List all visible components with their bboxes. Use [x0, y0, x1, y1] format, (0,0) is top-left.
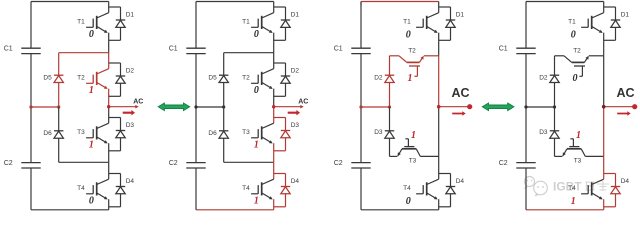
svg-text:D1: D1	[456, 12, 465, 19]
panel 4: junction dot neutral-branch	[553, 105, 556, 108]
panel 3: state of T2	[408, 73, 413, 84]
panel 1: capacitor C1	[4, 45, 41, 53]
panel 1: IGBT T1	[77, 13, 109, 33]
panel 1: wire branch above T4	[108, 162, 110, 179]
panel 4: current arrow	[617, 111, 631, 116]
svg-text:C2: C2	[499, 160, 508, 167]
panel 4: state of T4	[571, 196, 576, 207]
green transition arrow between panels 1 and 2	[158, 103, 190, 111]
panel 3: DC- rail (bottom)	[361, 209, 439, 211]
panel 2: wire branch above T3	[273, 107, 275, 124]
svg-text:AC: AC	[298, 99, 308, 106]
panel 4: DC link rail (left)	[525, 2, 527, 210]
panel 2: state of T2	[254, 85, 259, 96]
panel 3: label AC	[451, 86, 469, 100]
panel 2: wire branch above T1	[273, 2, 275, 13]
svg-text:1: 1	[89, 139, 94, 150]
svg-text:T3: T3	[574, 158, 582, 165]
svg-text:0: 0	[254, 85, 259, 96]
svg-text:0: 0	[89, 29, 94, 40]
panel 1: wire clamp top	[59, 52, 109, 54]
panel 1: wire clamp upper segment	[58, 53, 60, 107]
svg-text:1: 1	[576, 130, 581, 141]
panel 1: IGBT T4	[77, 179, 109, 199]
panel 1: DC- rail (bottom)	[31, 209, 109, 211]
svg-text:T4: T4	[568, 185, 576, 192]
panel 2: IGBT T4	[242, 179, 274, 199]
panel 4: IGBT T2 (horizontal)	[564, 48, 589, 77]
panel 3: wire neutral branch upper	[389, 56, 391, 107]
svg-text:T1: T1	[242, 18, 250, 25]
svg-text:1: 1	[408, 73, 413, 84]
panel 3: wire diode loop D4	[439, 174, 451, 207]
svg-text:1: 1	[89, 85, 94, 96]
svg-text:D2: D2	[126, 68, 135, 75]
panel 4: wire T2 left	[555, 55, 565, 57]
svg-text:D3: D3	[291, 122, 300, 129]
svg-text:0: 0	[571, 30, 576, 41]
svg-text:0: 0	[573, 73, 578, 84]
panel 2: IGBT T1	[242, 13, 274, 33]
svg-text:D4: D4	[291, 178, 300, 185]
panel 2: IGBT T2	[242, 69, 274, 89]
svg-text:D6: D6	[208, 130, 217, 137]
panel 3: AC output wire	[439, 106, 470, 108]
panel 1: junction dot neutral-clamp	[57, 105, 60, 108]
panel 4: wire T2 right	[589, 55, 604, 57]
panel 3: diode D2	[374, 75, 394, 83]
panel 3: red corner top-left	[360, 2, 362, 6]
panel 2: wire clamp top	[224, 52, 274, 54]
svg-text:T3: T3	[77, 129, 85, 136]
panel 3: state of T3	[411, 130, 416, 141]
panel 1: wire diode loop D1	[109, 7, 121, 40]
panel 1: diode D1	[116, 12, 135, 28]
panel 4: state of T1	[571, 30, 576, 41]
svg-text:C2: C2	[334, 160, 343, 167]
panel 1: wire branch above T1	[108, 2, 110, 13]
panel 4: wire branch above T1	[603, 2, 605, 13]
svg-text:T3: T3	[409, 158, 417, 165]
panel 4: junction dot neutral-rail	[524, 105, 527, 108]
svg-text:D1: D1	[291, 12, 300, 19]
panel 4: AC terminal dot	[632, 104, 637, 109]
svg-text:D1: D1	[126, 12, 135, 19]
panel 1: wire diode loop D3	[109, 118, 121, 151]
panel 2: wire diode loop D3	[274, 118, 286, 151]
panel 3: wire T3 right	[420, 155, 438, 157]
svg-text:T3: T3	[242, 129, 250, 136]
svg-text:D4: D4	[621, 178, 630, 185]
svg-text:D3: D3	[374, 129, 383, 136]
panel 4: IGBT T4	[568, 179, 604, 199]
panel 1: wire diode loop D4	[109, 174, 121, 207]
panel 3: capacitor C2	[334, 160, 371, 168]
panel 4: wire T3 right	[585, 155, 603, 157]
panel 1: wire branch below T2	[108, 89, 110, 107]
svg-text:0: 0	[254, 29, 259, 40]
panel 1: wire branch above T3	[108, 107, 110, 124]
svg-text:D2: D2	[539, 75, 548, 82]
panel 2: current arrow	[288, 110, 300, 115]
panel 2: wire clamp bottom	[224, 161, 274, 163]
panel 1: DC link rail (left)	[30, 2, 32, 210]
panel 2: DC+ rail (top)	[196, 1, 274, 3]
panel 3: diode D4	[446, 178, 465, 194]
green transition arrow between panels 3 and 4	[482, 103, 514, 111]
svg-text:0: 0	[406, 30, 411, 41]
panel 3: wire T3 left	[390, 155, 398, 157]
panel 2: clamp diode D6	[208, 130, 228, 138]
svg-text:T4: T4	[242, 185, 250, 192]
panel 1: wire branch below T4	[108, 199, 110, 210]
panel 1: IGBT T2	[77, 69, 109, 89]
panel 3: current arrow	[452, 111, 466, 116]
panel 3: wire branch below T4	[438, 199, 440, 210]
panel 3: neutral wire	[361, 106, 390, 108]
panel 1: diode D4	[116, 178, 135, 194]
svg-text:T2: T2	[242, 74, 250, 81]
panel 4: wire diode loop D1	[604, 7, 616, 40]
panel 3: wire branch T1 to AC	[438, 33, 440, 107]
panel 2: label AC	[298, 99, 308, 106]
svg-text:1: 1	[254, 139, 259, 150]
svg-text:T4: T4	[77, 185, 85, 192]
svg-text:C1: C1	[499, 45, 508, 52]
panel 2: AC output wire	[274, 105, 304, 109]
panel 1: capacitor C2	[4, 160, 41, 168]
panel 2: capacitor C1	[169, 45, 206, 53]
panel 4: label AC	[616, 86, 634, 100]
panel 4: wire branch T1 to AC	[603, 33, 605, 107]
panel 2: wire diode loop D2	[274, 63, 286, 96]
panel 1: state of T1	[89, 29, 94, 40]
panel 1: wire clamp lower segment	[58, 107, 60, 162]
panel 2: wire branch below T2	[273, 89, 275, 107]
panel 2: wire branch above T4	[273, 162, 275, 179]
panel 2: DC- rail (bottom)	[196, 209, 274, 211]
panel 4: diode D3	[539, 129, 559, 138]
panel 1: clamp diode D6	[43, 130, 63, 138]
panel 2: wire clamp upper segment	[223, 53, 225, 107]
svg-text:D1: D1	[621, 12, 630, 19]
svg-text:0: 0	[406, 196, 411, 207]
panel 3: IGBT T2 (horizontal)	[399, 48, 424, 77]
panel 1: junction dot AC	[107, 105, 110, 108]
watermark logo bubbles	[524, 177, 548, 197]
panel 4: state of T3	[576, 130, 581, 141]
panel 1: wire diode loop D2	[109, 63, 121, 96]
panel 2: state of T4	[254, 195, 259, 206]
panel 1: clamp diode D5	[43, 75, 63, 83]
panel 2: clamp diode D5	[208, 75, 228, 83]
svg-text:C1: C1	[334, 45, 343, 52]
panel 3: DC link rail (left)	[360, 2, 362, 210]
panel 2: diode D1	[281, 12, 300, 28]
panel 2: wire branch below T3	[273, 143, 275, 162]
panel 2: junction dot neutral-rail	[194, 105, 197, 108]
panel 3: wire branch above T1	[438, 2, 440, 13]
panel 4: IGBT T1	[568, 13, 604, 33]
panel 3: junction dot neutral-rail	[359, 105, 362, 108]
svg-text:D6: D6	[43, 130, 52, 137]
svg-text:D2: D2	[374, 75, 383, 82]
svg-text:T2: T2	[408, 48, 416, 55]
panel 4: wire branch AC to T4	[603, 107, 605, 180]
panel 1: wire branch below T1	[108, 33, 110, 53]
panel 1: label AC	[133, 99, 143, 106]
panel 1: neutral wire	[31, 106, 59, 108]
svg-text:0: 0	[89, 195, 94, 206]
panel 3: DC+ rail (top)	[361, 1, 439, 3]
svg-text:1: 1	[254, 195, 259, 206]
panel 3: capacitor C1	[334, 45, 371, 53]
panel 3: AC terminal dot	[467, 104, 472, 109]
panel 1: junction dot neutral-rail	[29, 105, 32, 108]
svg-text:C2: C2	[169, 160, 178, 167]
panel 1: IGBT T3	[77, 123, 109, 143]
svg-text:D3: D3	[539, 129, 548, 136]
panel 3: junction dot neutral-branch	[388, 105, 391, 108]
panel 1: wire clamp bottom	[59, 161, 109, 163]
panel 4: wire neutral branch upper	[554, 56, 556, 107]
panel 4: DC- rail (bottom)	[526, 209, 604, 211]
panel 3: IGBT T3 (horizontal)	[398, 139, 421, 165]
svg-text:T2: T2	[573, 48, 581, 55]
panel 4: wire branch below T4	[603, 199, 605, 210]
svg-text:D3: D3	[126, 122, 135, 129]
panel 4: diode D4	[611, 178, 630, 194]
panel 4: capacitor C2	[499, 160, 536, 168]
svg-text:D2: D2	[291, 68, 300, 75]
panel 1: diode D2	[116, 68, 135, 84]
panel 2: capacitor C2	[169, 160, 206, 168]
panel 3: wire neutral branch lower	[389, 107, 391, 156]
panel 2: wire diode loop D4	[274, 174, 286, 207]
svg-text:D4: D4	[126, 178, 135, 185]
panel 4: capacitor C1	[499, 45, 536, 53]
panel 2: wire branch above T2	[273, 53, 275, 69]
panel 3: wire T2 left	[390, 55, 400, 57]
svg-text:D4: D4	[456, 178, 465, 185]
panel 4: diode D2	[539, 75, 559, 83]
svg-text:T1: T1	[568, 18, 576, 25]
svg-text:C1: C1	[169, 45, 178, 52]
svg-text:AC: AC	[616, 86, 634, 100]
panel 4: AC output wire	[604, 106, 635, 108]
panel 3: diode D1	[446, 12, 465, 28]
panel 2: junction dot neutral-clamp	[222, 105, 225, 108]
panel 1: state of T2	[89, 85, 94, 96]
panel 4: diode D1	[611, 12, 630, 28]
panel 2: IGBT T3	[242, 123, 274, 143]
svg-text:T4: T4	[403, 185, 411, 192]
panel 2: junction dot AC	[272, 105, 275, 108]
svg-text:D5: D5	[208, 75, 217, 82]
panel 4: wire T3 left	[555, 155, 563, 157]
panel 4: neutral wire	[526, 106, 555, 108]
panel 1: wire branch above T2	[108, 53, 110, 69]
watermark glyphs	[586, 181, 610, 191]
panel 2: wire diode loop D1	[274, 7, 286, 40]
panel 1: state of T4	[89, 195, 94, 206]
panel 2: diode D3	[281, 122, 300, 138]
panel 4: IGBT T3 (horizontal)	[563, 139, 586, 165]
panel 3: IGBT T4	[403, 179, 439, 199]
svg-text:1: 1	[411, 130, 416, 141]
panel 3: wire diode loop D1	[439, 7, 451, 40]
panel 1: AC output wire	[109, 105, 139, 109]
panel 2: wire branch below T1	[273, 33, 275, 53]
panel 3: diode D3	[374, 129, 394, 138]
panel 3: state of T1	[406, 30, 411, 41]
panel 2: DC link rail (left)	[195, 2, 197, 210]
panel 3: wire T2 right	[424, 55, 439, 57]
panel 4: wire diode loop D4	[604, 174, 616, 207]
svg-text:D5: D5	[43, 75, 52, 82]
panel 4: DC+ rail (top)	[526, 1, 604, 3]
panel 1: wire branch below T3	[108, 143, 110, 162]
panel 4: junction dot AC	[602, 105, 606, 109]
panel 3: junction dot AC	[437, 105, 441, 109]
panel 3: state of T4	[406, 196, 411, 207]
svg-text:T1: T1	[77, 18, 85, 25]
panel 2: wire clamp lower segment	[223, 107, 225, 162]
panel 3: wire branch AC to T4	[438, 107, 440, 180]
svg-text:C1: C1	[4, 45, 13, 52]
panel 2: diode D4	[281, 178, 300, 194]
panel 3: IGBT T1	[403, 13, 439, 33]
panel 1: state of T3	[89, 139, 94, 150]
panel 1: diode D3	[116, 122, 135, 138]
svg-text:T2: T2	[77, 74, 85, 81]
panel 2: state of T1	[254, 29, 259, 40]
panel 4: state of T2	[573, 73, 578, 84]
panel 2: state of T3	[254, 139, 259, 150]
svg-text:T1: T1	[403, 18, 411, 25]
panel 4: wire neutral branch lower	[554, 107, 556, 156]
svg-text:1: 1	[571, 196, 576, 207]
svg-text:AC: AC	[451, 86, 469, 100]
panel 2: neutral wire	[196, 106, 224, 108]
panel 1: current arrow	[123, 110, 135, 115]
svg-text:C2: C2	[4, 160, 13, 167]
svg-text:AC: AC	[133, 99, 143, 106]
panel 2: diode D2	[281, 68, 300, 84]
panel 1: DC+ rail (top)	[31, 1, 109, 3]
panel 2: wire branch below T4	[273, 199, 275, 210]
